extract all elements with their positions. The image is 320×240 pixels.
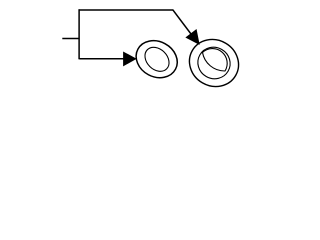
- grommet A inner ellipse: [140, 42, 174, 76]
- grommet B inner ellipse: [192, 41, 236, 84]
- arrowhead to right grommet: [186, 30, 199, 44]
- grommet B bore leaf (through-hole highlight): [203, 49, 228, 71]
- wire: diagonal leader to right grommet: [173, 10, 191, 34]
- wire: bottom horizontal leader to left grommet: [79, 58, 124, 60]
- wire: left stub line: [62, 38, 79, 40]
- arrowhead to left grommet: [124, 52, 136, 65]
- wire: vertical riser: [78, 9, 80, 59]
- grommet A (left seal ring): outer ellipse: [130, 34, 184, 85]
- grommet B (right seal ring): outer ellipse: [181, 31, 247, 96]
- wire: top horizontal run: [79, 9, 173, 11]
